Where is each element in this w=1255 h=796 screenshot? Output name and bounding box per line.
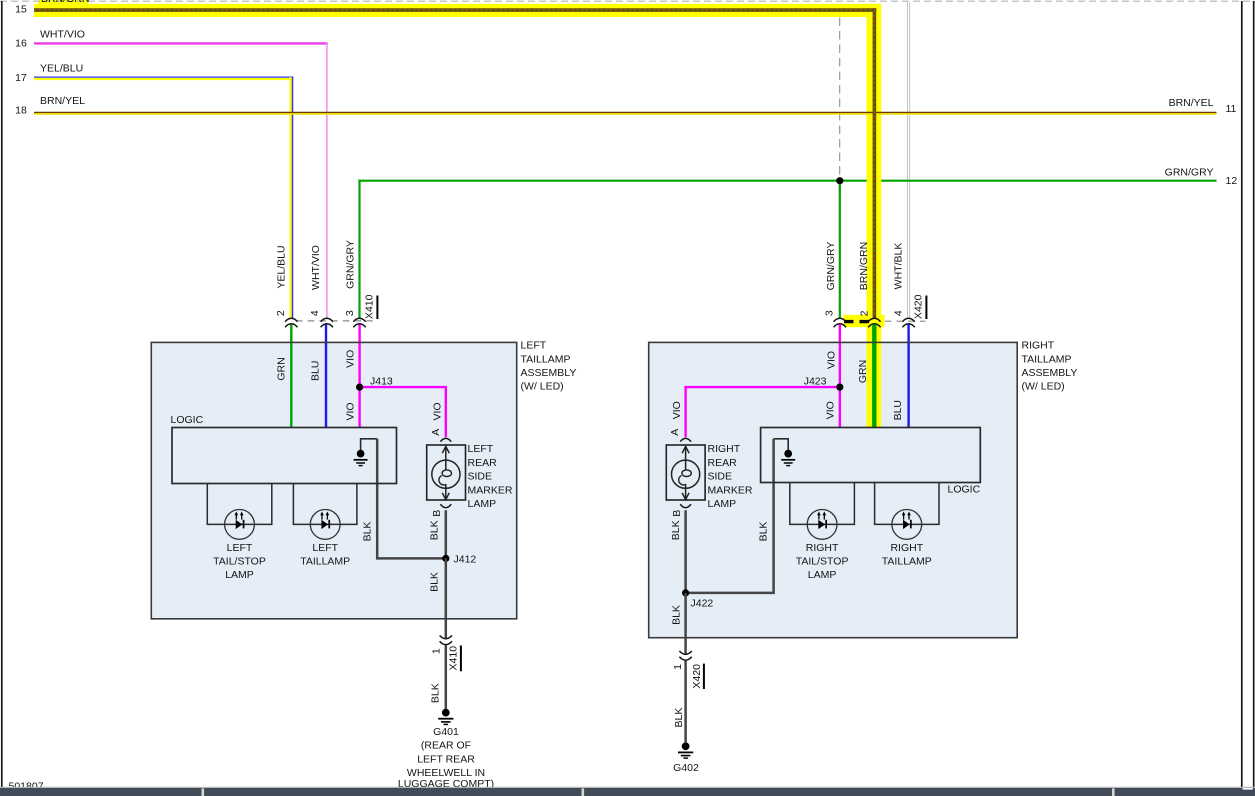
svg-text:BLK: BLK [429,683,441,703]
wire YEL/BLU vertical to X410 pin 2 [291,77,293,318]
svg-text:VIO: VIO [824,401,836,419]
svg-text:VIO: VIO [826,351,838,369]
svg-text:X410: X410 [364,294,376,319]
svg-text:GRN: GRN [857,360,869,383]
connector X420 pin 2 hooks [868,318,880,327]
wire BLK J422 to X420 pin 1 [684,593,687,654]
junction of GRN/GRY with dashed crossover [836,177,843,184]
svg-text:BLK: BLK [429,520,441,540]
label G401 with location [398,726,494,790]
wire VIO branch to right side marker lamp [686,387,840,437]
svg-text:BLU: BLU [892,400,904,420]
junction J422 [682,589,689,596]
left rear side marker lamp [427,445,466,500]
svg-text:RIGHT: RIGHT [1022,340,1055,352]
svg-text:BRN/GRN: BRN/GRN [41,0,89,5]
svg-text:BLK: BLK [758,522,770,542]
svg-text:VIO: VIO [345,402,357,420]
highlight band of wire BRN/GRN (horizontal, circuit 15) [34,4,881,17]
svg-text:BLK: BLK [429,572,441,592]
wire VIO inside left box [358,324,360,427]
wire BLK X420 to ground G402 [684,661,687,743]
wire GRN/GRY vertical drop to X420 pin 3 [839,181,841,319]
wire VIO branch to left side marker lamp [360,387,446,437]
connector X410 pin 4 hooks [321,318,333,327]
label X410 underline (top connector) [376,296,378,320]
wire GRN inside left box [290,324,292,427]
LED right tail/stop lamp [807,510,837,540]
svg-text:TAIL/STOP: TAIL/STOP [213,556,266,568]
svg-text:VIO: VIO [671,401,683,419]
svg-text:12: 12 [1226,175,1238,187]
connector X410 pin 2 hooks [285,318,297,327]
svg-text:LEFT: LEFT [227,542,253,554]
logic module ground hook (right) [774,439,789,451]
logic module ground hook (left) [361,439,378,451]
right taillamp assembly title [1022,340,1078,393]
highlight patch behind clipped BRN/GRN label [38,0,88,4]
connector X420 pin 4 hooks [902,318,914,327]
svg-text:YEL/BLU: YEL/BLU [40,63,83,75]
svg-text:(W/ LED): (W/ LED) [1022,381,1065,393]
right rear side marker lamp [666,445,705,500]
right rear side marker lamp pin B hook [680,504,691,508]
svg-text:X420: X420 [691,664,703,689]
svg-text:TAILLAMP: TAILLAMP [300,556,350,568]
svg-text:GRN/GRY: GRN/GRY [825,242,837,291]
label X420 underline (top connector) [925,296,927,320]
svg-text:G401: G401 [433,726,459,738]
LED right tail/stop lamp loop [790,483,855,525]
wire BLU inside left box [325,324,327,427]
wire VIO inside right box [839,324,841,427]
svg-text:3: 3 [344,310,356,316]
svg-text:YEL/BLU: YEL/BLU [276,245,288,288]
svg-text:1: 1 [430,648,442,654]
svg-text:RIGHT: RIGHT [890,542,923,554]
page right outer border [1253,1,1255,788]
LED left taillamp loop [293,484,357,525]
svg-text:LAMP: LAMP [225,569,254,581]
wire BRN/GRN core horizontal (brown with green stripe) [34,8,876,12]
page top dashed border [0,0,1255,2]
svg-text:VIO: VIO [432,402,444,420]
svg-text:1: 1 [672,664,684,670]
connector X420 dashed link (highlighted part) [844,320,870,323]
connector X420 pin 3 hooks [834,318,846,327]
svg-text:18: 18 [15,104,27,116]
svg-text:WHT/BLK: WHT/BLK [892,243,904,290]
svg-text:11: 11 [1226,103,1237,115]
svg-text:GRN/GRY: GRN/GRY [1165,167,1214,179]
right taillamp label [882,542,932,568]
svg-text:17: 17 [15,72,27,84]
svg-text:X410: X410 [447,646,459,671]
highlight patch on connector X420 dashed link [844,315,885,327]
svg-text:TAILLAMP: TAILLAMP [1022,353,1072,365]
svg-text:BLK: BLK [362,522,374,542]
bottom bar [0,787,1255,796]
svg-text:GRN/GRY: GRN/GRY [344,240,356,289]
svg-text:4: 4 [893,310,905,316]
left rear side marker lamp pin B hook [440,504,451,508]
svg-text:SIDE: SIDE [468,471,493,483]
left taillamp label [300,542,350,568]
left rear side marker lamp label [468,443,513,510]
svg-text:LOGIC: LOGIC [948,484,981,496]
right taillamp assembly box fill [649,342,1018,637]
svg-text:LEFT: LEFT [468,443,494,455]
svg-text:2: 2 [275,310,287,316]
ground G402 [678,742,693,758]
right logic module border [761,428,981,483]
highlight band of wire BRN/GRN (vertical drop to X420 pin 2) [867,4,882,428]
left taillamp assembly box fill [151,342,516,618]
svg-text:LEFT: LEFT [521,340,547,352]
wire WHT/BLK vertical (to X420 pin 4) [907,2,910,318]
svg-text:A: A [430,429,442,436]
svg-text:J412: J412 [454,553,477,565]
svg-text:LAMP: LAMP [468,498,497,510]
svg-text:BLK: BLK [673,708,685,728]
connector X420 dashed link line [885,320,926,322]
left tail/stop lamp label [213,542,266,581]
LED left tail/stop lamp loop [207,484,271,525]
svg-text:B: B [671,510,683,517]
LED left taillamp [310,510,340,540]
wire BLK from left marker lamp pin B [445,510,448,558]
ground symbol inside right logic module [781,450,795,466]
svg-text:4: 4 [309,310,321,316]
wire BLK from right logic to J422 [689,439,774,593]
svg-text:G402: G402 [673,762,699,774]
junction J413 [356,384,363,391]
left taillamp assembly box border [151,342,516,618]
svg-text:MARKER: MARKER [468,484,513,496]
wire BRN/GRN core vertical to X420 pin 2 [873,8,877,318]
connector X410 dashed link line [296,320,377,322]
svg-text:BLU: BLU [310,361,322,381]
svg-text:BRN/YEL: BRN/YEL [1169,97,1214,109]
svg-text:LOGIC: LOGIC [171,414,204,426]
svg-text:WHT/VIO: WHT/VIO [310,245,322,290]
svg-text:15: 15 [15,4,27,16]
page left border [1,1,3,790]
LED left tail/stop lamp [225,510,255,540]
LED right taillamp [892,510,922,540]
svg-text:RIGHT: RIGHT [806,542,839,554]
connector X410 pin 1 hooks [440,635,452,644]
svg-text:TAILLAMP: TAILLAMP [521,353,571,365]
svg-text:16: 16 [15,38,27,50]
svg-text:(W/ LED): (W/ LED) [521,381,564,393]
svg-text:ASSEMBLY: ASSEMBLY [1022,367,1078,379]
svg-text:GRN: GRN [276,357,288,380]
right rear side marker lamp label [708,443,753,510]
right tail/stop lamp label [796,542,849,581]
wire GRN inside right box (highlighted) [872,324,876,427]
ground symbol inside left logic module [354,450,368,466]
svg-text:3: 3 [824,310,836,316]
svg-text:REAR: REAR [468,457,498,469]
wire BLK J412 to X410 pin 1 [445,558,448,638]
right taillamp assembly box border [649,342,1018,637]
ground G401 [438,709,453,725]
svg-text:LAMP: LAMP [808,569,837,581]
wire BLU inside right box [907,324,909,427]
right rear side marker lamp pin A hook [680,438,691,441]
svg-text:LEFT: LEFT [312,542,338,554]
svg-text:TAILLAMP: TAILLAMP [882,556,932,568]
wire 18 BRN/YEL horizontal (row 11) [34,113,1217,114]
connector X420 pin 1 hooks [679,651,691,660]
junction J423 [836,384,843,391]
svg-text:J422: J422 [691,598,714,610]
page right inner border [1241,1,1243,788]
svg-text:(REAR OF: (REAR OF [421,740,471,752]
LED right taillamp loop [875,483,939,525]
svg-text:J423: J423 [804,375,827,387]
left taillamp assembly title [521,340,577,393]
wire WHT/VIO vertical to X410 pin 4 [326,42,328,318]
left rear side marker lamp pin A hook [440,438,451,441]
svg-text:LEFT REAR: LEFT REAR [417,753,475,765]
label X410 underline (bottom connector) [460,646,462,672]
svg-text:VIO: VIO [345,350,357,368]
svg-text:ASSEMBLY: ASSEMBLY [521,367,577,379]
wire GRN/GRY vertical drop to X410 pin 3 [358,180,360,319]
svg-text:REAR: REAR [708,457,738,469]
svg-text:2: 2 [858,310,870,316]
svg-text:X420: X420 [913,294,925,319]
svg-text:J413: J413 [370,375,393,387]
svg-text:B: B [431,510,443,517]
svg-text:TAIL/STOP: TAIL/STOP [796,556,849,568]
wire GRN/GRY horizontal (row 12) [358,180,1216,182]
svg-text:RIGHT: RIGHT [708,443,741,455]
wire 17 YEL/BLU horizontal (blue stripe over yellow) [34,77,293,79]
svg-text:MARKER: MARKER [708,484,753,496]
svg-text:BLK: BLK [670,605,682,625]
wire BLK X410 to ground G401 [445,645,448,709]
svg-text:BRN/GRN: BRN/GRN [858,242,870,290]
svg-text:WHT/VIO: WHT/VIO [40,29,85,41]
svg-text:SIDE: SIDE [708,471,733,483]
svg-text:BLK: BLK [670,520,682,540]
wire BLK from left logic to J412 [377,439,442,559]
svg-text:BRN/YEL: BRN/YEL [40,95,85,107]
left logic module border [172,428,397,484]
connector X410 pin 3 hooks [353,318,365,327]
svg-text:LAMP: LAMP [708,498,737,510]
junction J412 [442,555,449,562]
wire BLK from right marker lamp pin B [684,510,687,593]
wire 16 WHT/VIO horizontal [34,42,328,44]
svg-text:A: A [669,429,681,436]
label X420 underline (bottom connector) [703,664,705,689]
dashed crossover line to junction on GRN/GRY [839,18,841,177]
